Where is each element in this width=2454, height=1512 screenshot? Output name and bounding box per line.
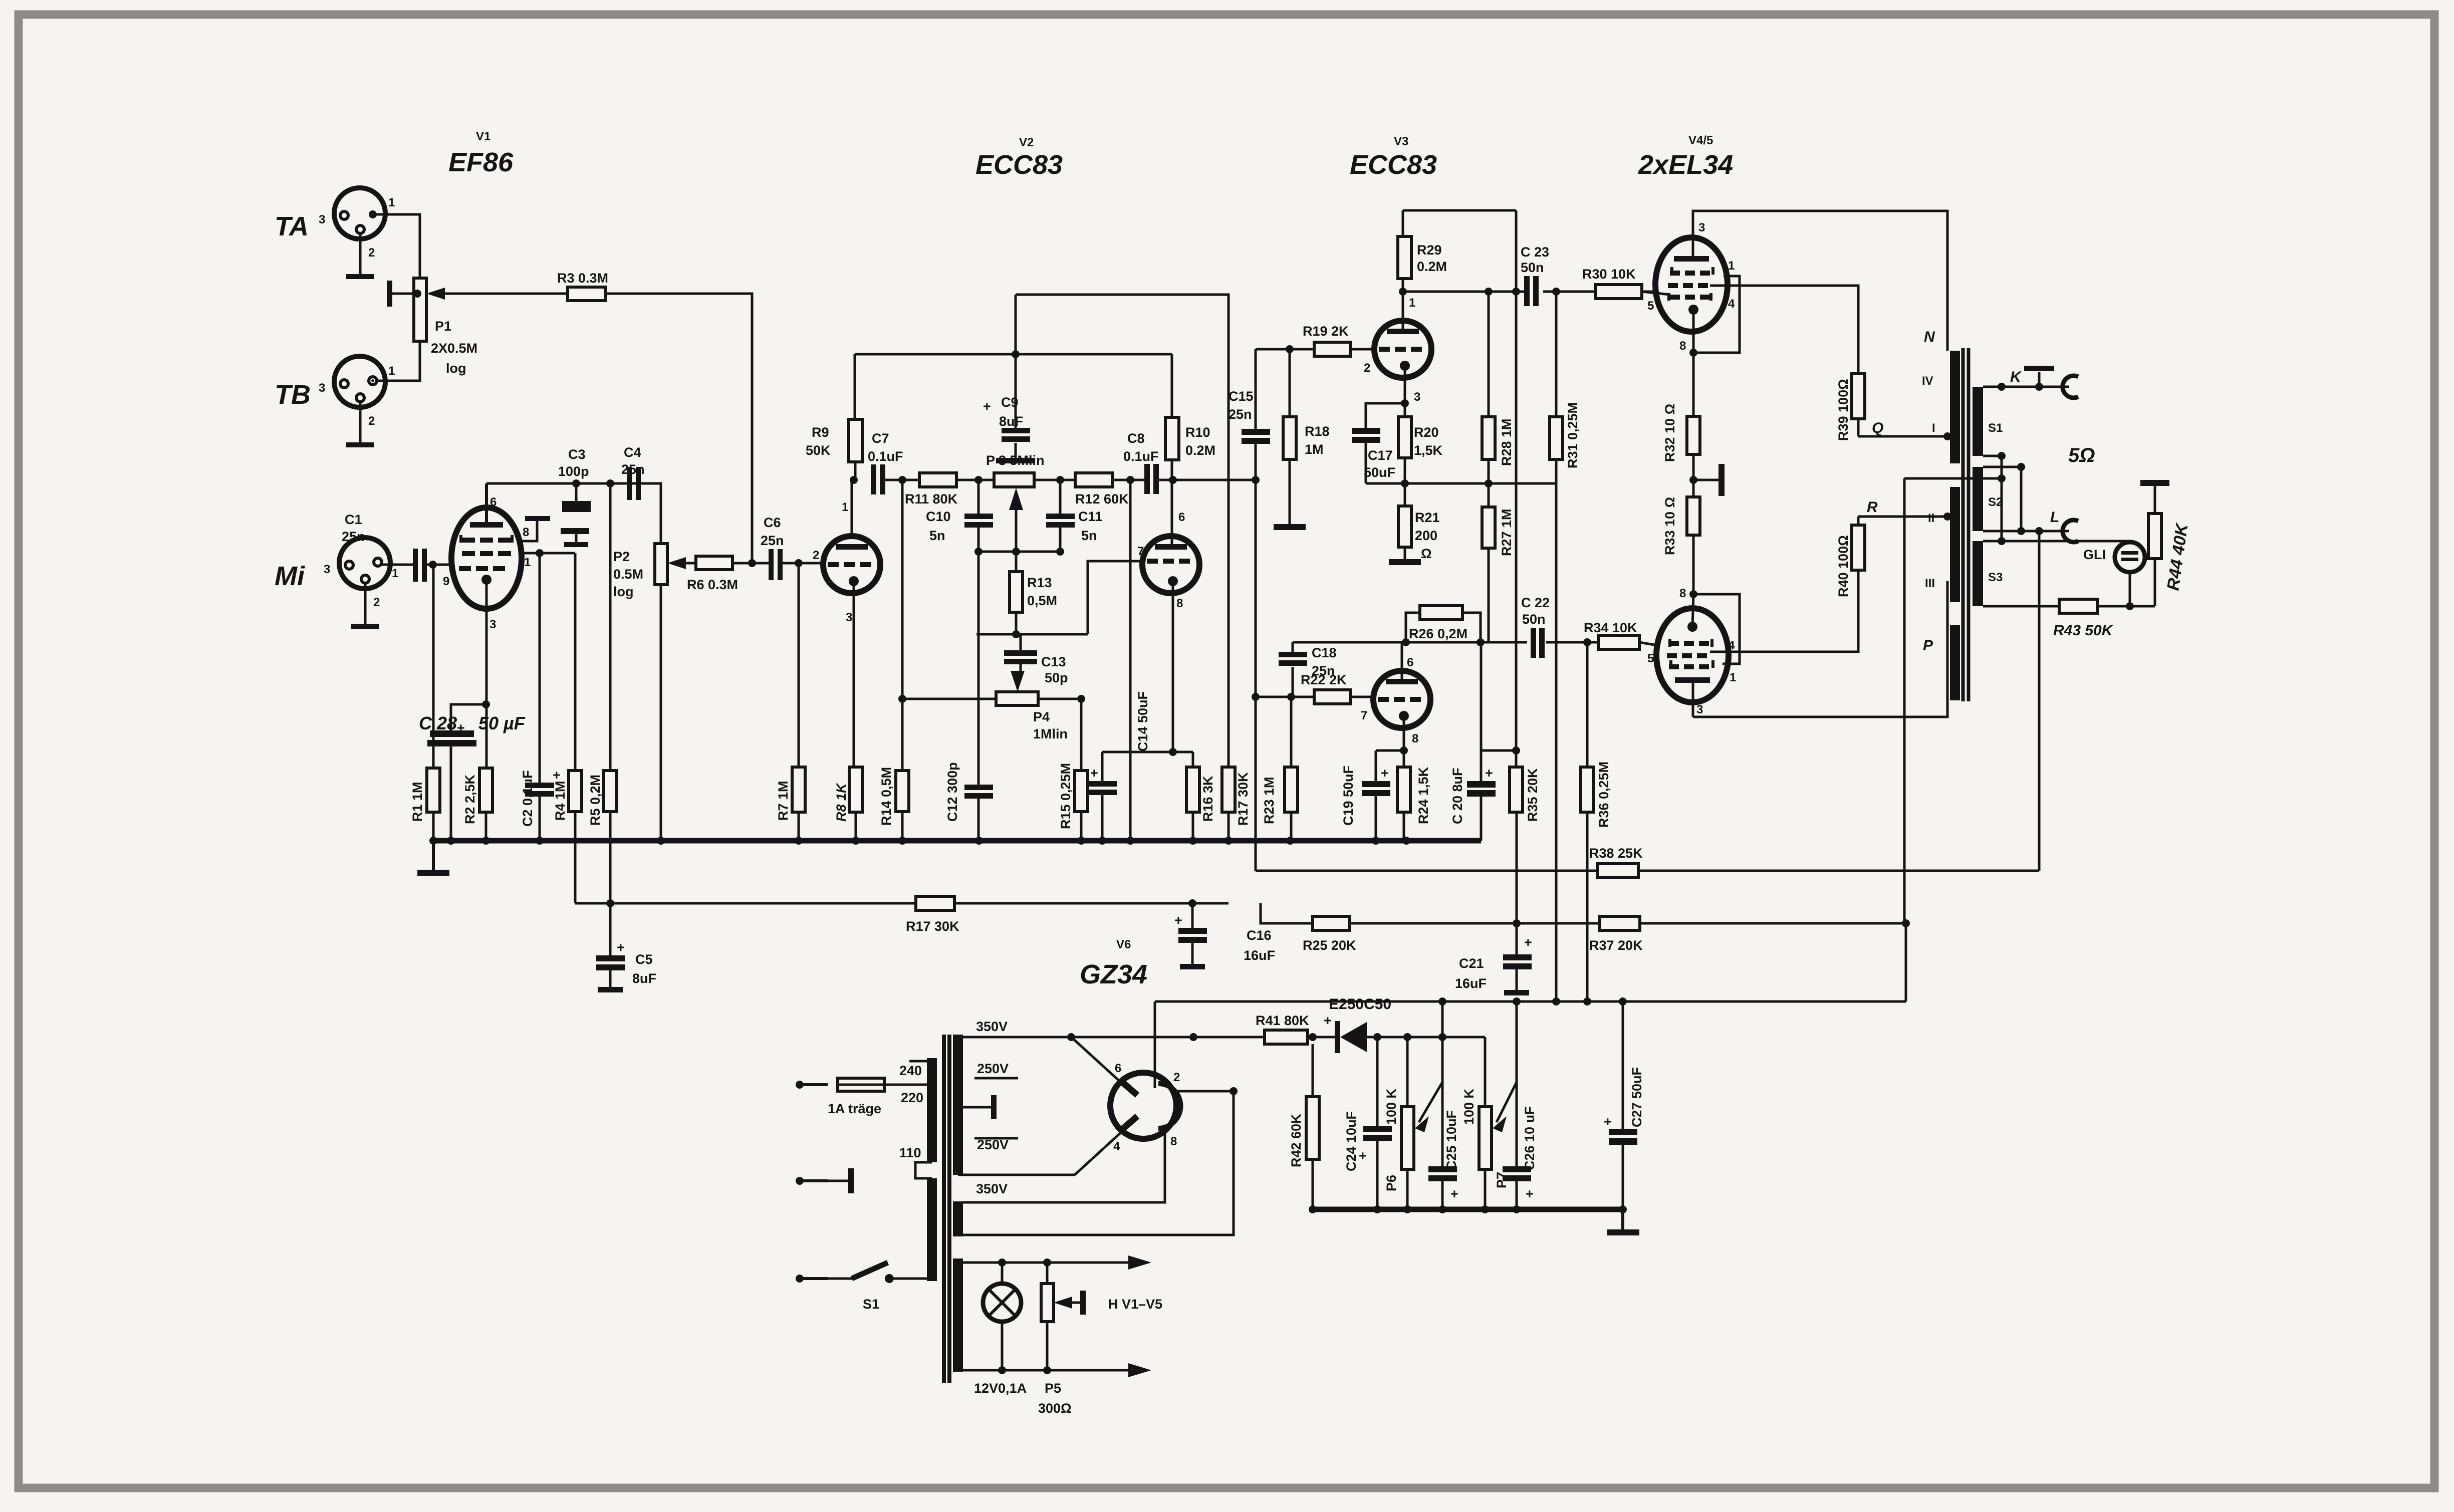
svg-text:6: 6 [1178,511,1185,524]
tube V4 EL34 [1647,221,1735,353]
svg-text:4: 4 [1113,1140,1120,1153]
potentiometer P7 [1461,1037,1517,1209]
potentiometer P1 [387,278,568,376]
svg-text:R8 1K: R8 1K [834,782,849,822]
ground symbol under C27 [1607,1209,1639,1235]
svg-text:R36 0,25M: R36 0,25M [1596,762,1611,828]
svg-text:C18: C18 [1312,645,1337,660]
tube V2a ECC83 triode [813,500,880,624]
svg-text:R15 0,25M: R15 0,25M [1058,763,1073,829]
tube V6 GZ34 [1110,1062,1181,1153]
svg-text:+: + [1090,766,1098,781]
resistor R42 60K [1289,1044,1319,1209]
svg-text:3: 3 [1414,390,1420,404]
svg-text:C11: C11 [1078,509,1102,524]
svg-text:0.1uF: 0.1uF [1123,449,1159,464]
svg-text:C26 10 uF: C26 10 uF [1522,1106,1537,1170]
capacitor C6 25n [761,515,823,580]
big label V1 [448,130,514,177]
svg-text:R37 20K: R37 20K [1589,938,1643,953]
resistor R6 0.3M [687,556,770,592]
connector TA [275,188,395,260]
svg-text:+: + [983,399,991,414]
svg-text:5n: 5n [1081,528,1097,543]
phase inverter row 1278 [1293,641,1597,644]
svg-text:25n: 25n [1229,407,1252,422]
svg-text:R42 60K: R42 60K [1289,1114,1304,1167]
svg-text:L: L [2050,509,2059,526]
svg-text:0.2M: 0.2M [1185,443,1215,458]
S2 top link [1983,466,2021,468]
svg-text:1: 1 [842,500,848,514]
V3b grid row R22 [1256,672,1374,704]
svg-text:3: 3 [1698,221,1705,234]
svg-text:C2 0,1uF: C2 0,1uF [520,770,535,827]
S3 bottom row with R43 [1983,599,2155,639]
signal row 958 [885,479,919,481]
svg-text:C 22: C 22 [1521,595,1550,610]
svg-text:R18: R18 [1305,424,1330,439]
row to R37 column [1905,923,1907,1001]
capacitor C18 25n [1279,642,1337,697]
ground bus [429,837,1481,845]
junction [1485,479,1493,487]
wire [1693,581,1947,717]
svg-text:6: 6 [1115,1062,1121,1075]
S1 bottom link [1983,455,2002,457]
svg-text:R33 10 Ω: R33 10 Ω [1662,497,1677,555]
svg-text:TB: TB [275,380,311,410]
pilot lamp [983,1263,1021,1370]
svg-text:+: + [457,720,465,735]
secondary winding S3 [1973,541,2003,606]
svg-text:+: + [1324,1013,1332,1028]
svg-text:16uF: 16uF [1244,948,1275,963]
capacitor C11 5n [1046,480,1102,552]
svg-text:R23 1M: R23 1M [1262,777,1277,824]
ground Mi pin2 [351,583,379,629]
junction [1583,638,1591,646]
svg-text:+: + [553,768,561,783]
svg-text:III: III [1925,577,1935,590]
svg-text:300Ω: 300Ω [1038,1401,1072,1416]
svg-text:6: 6 [490,495,497,509]
diode E250C50 [1324,996,1485,1053]
resistor R20 1.5K [1398,417,1443,506]
junction [1401,479,1409,487]
svg-text:IV: IV [1922,374,1933,388]
svg-text:25n: 25n [342,529,365,544]
resistor R44 40K [2140,480,2192,606]
svg-text:1: 1 [1409,296,1415,310]
HV top 350V row to R41 [958,1033,1265,1041]
svg-text:C21: C21 [1459,956,1484,971]
big label V3 [1350,135,1437,180]
svg-text:R29: R29 [1417,242,1442,258]
svg-text:2: 2 [373,596,380,609]
svg-text:2X0.5M: 2X0.5M [431,341,477,356]
svg-text:+: + [1526,1186,1534,1201]
svg-text:1M: 1M [1305,442,1324,457]
tube V1 EF86 [443,483,531,631]
potentiometer P5 300ohm [1041,1263,1086,1370]
V2b plate lead to R10 node [1171,480,1173,544]
capacitor C26 10uF [1503,1001,1537,1209]
svg-text:1,5K: 1,5K [1414,443,1443,458]
HV secondary winding [953,1019,1018,1196]
svg-text:8: 8 [1170,1135,1177,1148]
svg-text:R30 10K: R30 10K [1582,267,1636,282]
GZ34 cathode B+ column [1154,1001,1156,1088]
svg-text:C19 50uF: C19 50uF [1341,766,1356,826]
svg-text:R14 0,5M: R14 0,5M [879,767,894,826]
chassis tab at cathode divider [1689,464,1725,496]
svg-text:6: 6 [1407,656,1413,669]
big label V2 [975,136,1063,180]
svg-text:0.5M: 0.5M [613,567,643,582]
big label V6 [1080,938,1147,989]
svg-text:Mi: Mi [275,561,305,591]
svg-text:R10: R10 [1185,425,1210,440]
svg-text:R20: R20 [1414,425,1439,440]
svg-text:8: 8 [1679,339,1686,353]
svg-text:5: 5 [1647,299,1654,313]
tube V2b ECC83 triode [1137,511,1199,610]
resistor R16 3K [1186,752,1215,841]
svg-text:R6 0.3M: R6 0.3M [687,577,738,592]
V2a cathode lead to R8 [853,581,855,767]
mains earth stub [796,1168,854,1193]
V1 pin1 wire [521,552,575,555]
svg-text:8uF: 8uF [999,414,1023,429]
capacitor C16 16uF [1174,903,1275,969]
svg-text:R17 30K: R17 30K [1236,772,1251,826]
heater bottom row with arrow [958,1363,1151,1377]
svg-text:C5: C5 [635,952,653,967]
GZ34 filament pin2 wire [963,1087,1238,1235]
svg-text:C 28: C 28 [419,713,457,733]
tone row 1101 [974,548,1064,556]
V2a plate lead [851,480,853,539]
svg-text:1: 1 [392,567,398,580]
svg-text:P5: P5 [1045,1381,1061,1396]
heater top row with arrow [958,1255,1151,1270]
capacitor C13 50p [1004,634,1068,692]
R31 column lower part [1555,642,1558,1001]
svg-text:50n: 50n [1521,260,1544,275]
junction [1998,452,2006,460]
svg-text:250V: 250V [977,1137,1009,1152]
resistor R30 10K [1582,267,1654,313]
svg-text:1: 1 [388,364,395,378]
V3b cathode [1403,716,1405,750]
svg-text:R19 2K: R19 2K [1303,324,1349,339]
svg-text:0,5M: 0,5M [1027,593,1057,608]
capacitor C14 50uF [1088,691,1150,841]
capacitor C23 50n [1521,244,1549,306]
wire TA pin1 to P1 [376,214,420,278]
svg-text:R39 100Ω: R39 100Ω [1836,379,1851,441]
svg-text:8: 8 [523,526,529,539]
svg-text:100p: 100p [558,464,589,479]
switch S1 stub [796,1263,928,1312]
svg-text:C27 50uF: C27 50uF [1629,1067,1644,1127]
V3a cathode node [1404,366,1406,417]
svg-text:2: 2 [368,414,375,428]
resistor R28 1M [1482,292,1514,507]
svg-text:log: log [613,584,634,599]
diagonal to GZ34 pin 6 [1071,1037,1127,1088]
svg-text:4: 4 [1728,639,1735,652]
resistor R8 1K [834,767,862,841]
svg-text:C15: C15 [1229,389,1254,404]
svg-text:50K: 50K [806,443,831,458]
V4 screen wire to R39 [1710,286,1858,374]
svg-text:ECC83: ECC83 [1350,150,1437,180]
svg-text:25n: 25n [1312,663,1335,678]
V4 cathode and g3 bracket [1689,276,1740,357]
svg-text:R17 30K: R17 30K [906,919,959,934]
junction [572,479,580,487]
power transformer primary bar with taps [899,1058,937,1281]
svg-text:250V: 250V [977,1061,1009,1076]
svg-text:R40 100Ω: R40 100Ω [1836,535,1851,597]
svg-text:R: R [1867,499,1878,516]
svg-text:Q: Q [1872,420,1883,436]
svg-text:V3: V3 [1394,135,1408,148]
resistor R11 80K [905,473,994,507]
svg-text:4: 4 [1728,297,1735,311]
svg-text:S3: S3 [1988,571,2003,584]
junction [1477,638,1485,646]
junction [1400,746,1408,754]
svg-text:E250C50: E250C50 [1329,996,1391,1013]
svg-text:TA: TA [275,211,309,241]
svg-text:R5 0,2M: R5 0,2M [588,775,603,826]
ground TB pin2 [346,402,374,447]
svg-text:8: 8 [1679,587,1686,600]
row 1266 [976,630,1088,638]
capacitor C25 10uF [1428,1001,1459,1209]
capacitor C2 0.1uF [520,553,561,841]
svg-text:5: 5 [1647,652,1654,665]
svg-text:R11 80K: R11 80K [905,491,958,507]
svg-text:110: 110 [899,1145,921,1160]
svg-text:C 20 8uF: C 20 8uF [1450,768,1465,824]
cathode row 1501 [1102,748,1193,756]
svg-text:GZ34: GZ34 [1080,959,1147,989]
feedback row R38 [1256,531,2039,878]
svg-text:50n: 50n [1522,612,1546,627]
heater winding [953,1258,963,1372]
svg-text:R13: R13 [1027,575,1052,590]
cathode junction row 965 [1366,482,1556,485]
svg-text:R21: R21 [1415,510,1440,525]
svg-text:12V0,1A: 12V0,1A [974,1381,1027,1396]
resistor R12 60K [1075,473,1145,507]
secondary winding S2 [1973,467,2003,531]
svg-text:2: 2 [1364,361,1370,375]
HV centre tap chassis [963,1095,997,1119]
rectifier filament winding [953,1201,963,1236]
V4 grid entry from R30 [1642,292,1670,295]
resistor R7 1M [776,559,805,841]
svg-text:ECC83: ECC83 [975,150,1063,180]
big label V4/5 [1638,134,1733,180]
svg-text:C1: C1 [345,512,362,527]
svg-text:R34 10K: R34 10K [1584,620,1637,635]
svg-text:R41 80K: R41 80K [1256,1013,1309,1028]
wire [2001,456,2003,541]
secondary winding S1 [1973,387,2003,456]
svg-text:8: 8 [1176,597,1183,610]
capacitor C4 25n [621,445,645,500]
wire [1376,749,1404,752]
svg-text:R31 0,25M: R31 0,25M [1565,402,1580,468]
svg-text:350V: 350V [976,1181,1008,1196]
svg-text:+: + [1174,913,1182,928]
connector Mi [275,538,398,609]
svg-text:7: 7 [1361,709,1367,722]
junction [536,549,544,557]
V3 plate rail 582 [1403,291,1656,293]
svg-text:1Mlin: 1Mlin [1033,726,1068,741]
svg-text:N: N [1924,329,1935,345]
V5 screen wire to R40 [1710,570,1858,652]
svg-text:0.1uF: 0.1uF [868,449,903,464]
junction [1401,399,1409,407]
V1 pin8 to chassis tab [520,516,550,541]
svg-text:R28 1M: R28 1M [1499,418,1514,466]
potentiometer P3 5Mlin [986,453,1075,552]
wire [1903,478,1906,923]
svg-text:V6: V6 [1116,938,1131,951]
svg-text:50p: 50p [1045,670,1068,685]
svg-text:8: 8 [1412,732,1418,745]
capacitor C28 50uF [419,700,526,841]
svg-text:H V1–V5: H V1–V5 [1108,1297,1162,1312]
ground TA pin2 [346,233,374,279]
svg-text:3: 3 [1696,703,1703,716]
svg-text:25n: 25n [761,533,784,548]
wire TB pin1 to P1 bottom [376,341,420,381]
svg-text:1: 1 [524,556,531,569]
svg-text:3: 3 [319,213,325,226]
svg-text:+: + [617,940,625,955]
svg-text:C14 50uF: C14 50uF [1135,691,1150,751]
svg-text:3: 3 [324,563,330,576]
capacitor C17 50uF [1352,403,1405,483]
svg-text:Ω: Ω [1421,546,1432,561]
svg-text:P4: P4 [1033,709,1050,724]
Q tap row [1858,420,1951,440]
S3 top row to GLI [1983,540,2002,543]
junction [606,479,614,487]
capacitor C27 50uF [1604,1001,1644,1209]
svg-text:R7 1M: R7 1M [776,781,791,821]
V1 plate top wire to C3/C4 [486,482,661,485]
resistor R35 20K [1510,210,1540,923]
svg-text:C16: C16 [1247,928,1272,943]
V5 cathode lead [1689,590,1740,664]
resistor R5 0.2M [588,483,617,903]
wire Mi pin1 to C1 [381,564,414,566]
resistor R34 10K [1584,620,1657,665]
resistor R36 0.25M [1581,642,1611,1001]
junction [1399,288,1407,296]
svg-text:C3: C3 [568,447,586,462]
svg-text:240: 240 [899,1063,922,1078]
resistor R40 100ohm [1836,517,1865,597]
GZ34 filament pin8 wire [963,1131,1165,1202]
svg-text:C4: C4 [624,445,641,460]
svg-text:P2: P2 [613,549,630,564]
svg-text:R2 2,5K: R2 2,5K [462,774,477,824]
svg-text:2: 2 [1173,1071,1180,1084]
V2b grid wire [1088,561,1143,634]
svg-text:+: + [1485,766,1493,781]
resistor R15 0.25M [1058,699,1088,841]
resistor R2 2.5K [462,580,493,841]
ground symbol at bus left end [417,841,449,876]
svg-text:+: + [1524,935,1532,950]
tube V3a ECC83 triode [1364,296,1431,404]
wire node to bus [1129,480,1132,841]
svg-text:C7: C7 [872,431,889,446]
svg-text:R26 0,2M: R26 0,2M [1409,626,1467,641]
svg-text:5Ω: 5Ω [2068,444,2095,466]
svg-text:R9: R9 [812,425,829,440]
capacitor C1 25n [342,512,454,582]
junction [1998,474,2006,482]
capacitor C8 0.1uF [1123,431,1260,494]
svg-text:100 K: 100 K [1384,1088,1399,1125]
svg-text:3: 3 [846,611,852,624]
junction [1552,288,1560,296]
svg-text:50uF: 50uF [1364,465,1395,480]
resistor R23 1M [1262,697,1298,841]
resistor R10 0.2M [1165,354,1215,480]
junction [2017,463,2025,471]
svg-text:V4/5: V4/5 [1688,134,1713,147]
potentiometer P4 1Mlin [898,692,1085,741]
svg-text:S1: S1 [863,1297,879,1312]
svg-text:+: + [1604,1114,1612,1129]
junction [1512,288,1520,296]
svg-text:S1: S1 [1988,421,2003,435]
connector TB [275,356,395,428]
capacitor C19 50uF [1341,750,1390,841]
junction [850,476,858,484]
svg-text:2: 2 [813,549,819,562]
svg-text:C25 10uF: C25 10uF [1444,1110,1459,1170]
resistor R31 0.25M [1550,292,1580,642]
svg-text:R4 1M: R4 1M [553,781,568,821]
resistor R21 200ohm [1389,506,1440,565]
top loop rail 420 and R29 [1398,210,1516,279]
svg-text:16uF: 16uF [1455,976,1487,991]
tube V5 EL34 [1647,587,1736,716]
resistor R41 80K [1256,1013,1337,1044]
svg-text:V2: V2 [1019,136,1034,149]
V4 plate rail to transformer N [1693,211,1947,351]
capacitor C21 16uF [1455,923,1532,995]
potentiometer P6 [1384,1037,1442,1209]
svg-text:1: 1 [1730,671,1736,684]
capacitor C5 8uF [596,899,656,992]
junction [1485,288,1493,296]
capacitor C24 10uF [1344,1037,1392,1209]
